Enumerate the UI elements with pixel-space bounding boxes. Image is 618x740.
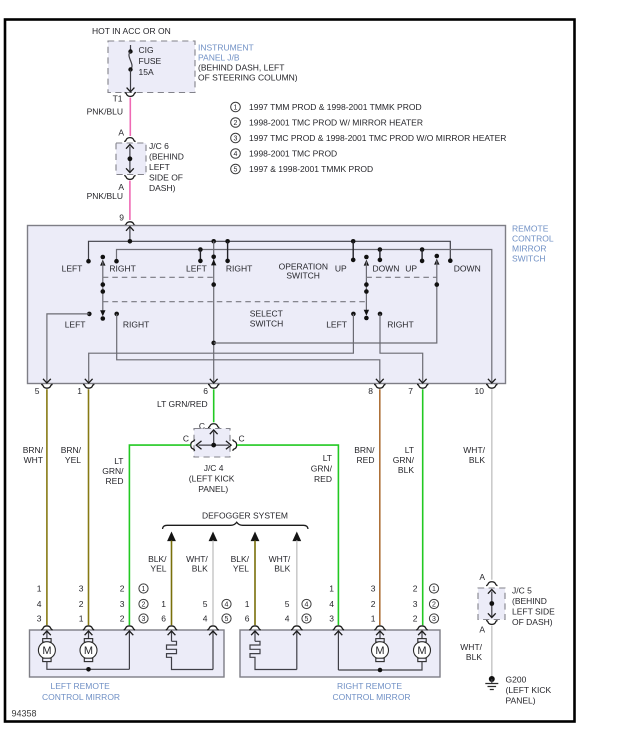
motor M right-2 (414, 639, 431, 662)
junction connector J/C 6 (116, 138, 184, 193)
svg-text:C: C (183, 434, 189, 444)
svg-text:LEFT: LEFT (149, 162, 170, 172)
svg-text:9: 9 (119, 213, 124, 223)
wire motors common right (338, 662, 422, 670)
svg-text:4: 4 (225, 602, 229, 609)
svg-text:3: 3 (142, 616, 146, 623)
node C right (233, 439, 237, 450)
svg-text:4: 4 (234, 151, 238, 158)
svg-text:1: 1 (142, 586, 146, 593)
svg-text:2: 2 (120, 584, 125, 594)
svg-text:DASH): DASH) (149, 183, 176, 193)
svg-text:T1: T1 (113, 94, 123, 104)
svg-text:CONTROL MIRROR: CONTROL MIRROR (333, 692, 411, 702)
svg-text:SIDE OF: SIDE OF (149, 173, 183, 183)
svg-text:4: 4 (329, 599, 334, 609)
wire BRN/WHT pin5 (46, 389, 48, 625)
svg-text:4: 4 (285, 614, 290, 624)
svg-text:M: M (84, 645, 93, 657)
contact RIGHT 1 (114, 259, 119, 264)
fuse CIG FUSE 15A (127, 45, 162, 92)
svg-text:5: 5 (225, 616, 229, 623)
svg-text:(LEFT KICK: (LEFT KICK (189, 474, 235, 484)
svg-text:INSTRUMENT: INSTRUMENT (198, 43, 254, 53)
svg-text:BLK: BLK (466, 652, 482, 662)
note 2 (231, 118, 423, 128)
svg-text:FUSE: FUSE (139, 56, 162, 66)
svg-text:3: 3 (37, 614, 42, 624)
mech link dashes select (103, 301, 367, 303)
wire PNK/BLU lower (129, 181, 131, 221)
svg-text:SWITCH: SWITCH (286, 271, 320, 281)
note 1 (231, 102, 422, 112)
svg-text:YEL: YEL (233, 564, 249, 574)
svg-text:DOWN: DOWN (373, 264, 400, 274)
svg-text:A: A (479, 625, 485, 635)
motor M right-1 (372, 639, 389, 662)
svg-text:2: 2 (432, 602, 436, 609)
pin 9 entry arrow (129, 227, 131, 241)
svg-text:1998-2001 TMC PROD: 1998-2001 TMC PROD (249, 149, 337, 159)
svg-text:CONTROL: CONTROL (512, 234, 554, 244)
svg-text:RIGHT: RIGHT (123, 320, 149, 330)
svg-text:M: M (375, 645, 384, 657)
svg-text:SWITCH: SWITCH (512, 254, 546, 264)
svg-text:BLK/: BLK/ (148, 554, 167, 564)
defogger brace (163, 522, 309, 529)
wire LT GRN/RED left branch (129, 445, 190, 625)
svg-text:BLK: BLK (469, 455, 485, 465)
wire BLK/YEL right (254, 541, 256, 626)
pin 7 (417, 384, 428, 388)
pin 1 (83, 384, 94, 388)
svg-text:7: 7 (408, 386, 413, 396)
svg-text:HOT IN ACC OR ON: HOT IN ACC OR ON (92, 26, 171, 36)
svg-text:BLK: BLK (398, 465, 414, 475)
svg-text:RED: RED (357, 455, 375, 465)
svg-text:YEL: YEL (65, 455, 81, 465)
svg-text:MIRROR: MIRROR (512, 244, 546, 254)
svg-text:2: 2 (120, 614, 125, 624)
svg-text:6: 6 (161, 614, 166, 624)
svg-text:LT GRN/RED: LT GRN/RED (157, 399, 208, 409)
node C left (191, 439, 195, 450)
pin 8 (374, 384, 385, 388)
svg-text:5: 5 (234, 167, 238, 174)
contact DOWN 4 (448, 258, 453, 263)
svg-text:3: 3 (413, 599, 418, 609)
svg-text:WHT/: WHT/ (269, 554, 291, 564)
svg-text:2: 2 (413, 614, 418, 624)
ground G200 (485, 675, 551, 706)
svg-text:(BEHIND DASH, LEFT: (BEHIND DASH, LEFT (198, 63, 284, 73)
svg-text:1: 1 (432, 586, 436, 593)
entry arcs right box (249, 626, 260, 630)
contact LEFT 2 stub (199, 250, 201, 261)
svg-text:(BEHIND: (BEHIND (149, 152, 184, 162)
pin 5 (41, 384, 52, 388)
contact LEFT 1 (86, 259, 91, 264)
svg-text:WHT/: WHT/ (186, 554, 208, 564)
wire select-left LEFT to pin 5 (47, 314, 89, 383)
svg-text:PNK/BLU: PNK/BLU (87, 191, 123, 201)
svg-text:2: 2 (413, 584, 418, 594)
svg-text:1997 & 1998-2001 TMMK PROD: 1997 & 1998-2001 TMMK PROD (249, 164, 373, 174)
wire BLK/YEL left (171, 541, 173, 626)
select left contacts (87, 312, 92, 317)
arrows inside J/C4 (213, 432, 215, 446)
svg-text:A: A (118, 128, 124, 138)
svg-text:G200: G200 (506, 675, 527, 685)
svg-text:DEFOGGER SYSTEM: DEFOGGER SYSTEM (202, 511, 288, 521)
svg-text:BRN/: BRN/ (23, 445, 44, 455)
motor M left-2 (80, 639, 97, 662)
contact UP 3 stub (352, 241, 354, 260)
svg-text:LT: LT (405, 445, 414, 455)
svg-text:RIGHT: RIGHT (387, 320, 413, 330)
contact UP 4 stub (421, 250, 423, 261)
svg-text:LT: LT (114, 456, 123, 466)
note 4 (231, 149, 337, 159)
svg-text:2: 2 (142, 602, 146, 609)
svg-text:J/C 6: J/C 6 (149, 141, 169, 151)
svg-text:M: M (417, 645, 426, 657)
svg-text:1: 1 (329, 584, 334, 594)
svg-text:4: 4 (203, 614, 208, 624)
svg-text:LEFT: LEFT (62, 264, 83, 274)
svg-text:RED: RED (106, 476, 124, 486)
wire LT GRN/RED right branch (237, 445, 339, 625)
svg-text:1: 1 (161, 599, 166, 609)
svg-text:OF STEERING COLUMN): OF STEERING COLUMN) (198, 73, 298, 83)
svg-text:3: 3 (234, 136, 238, 143)
wire WHT/BLK left (212, 541, 214, 626)
svg-text:PANEL J/B: PANEL J/B (198, 53, 240, 63)
svg-text:8: 8 (368, 386, 373, 396)
svg-text:6: 6 (203, 386, 208, 396)
svg-text:94358: 94358 (12, 709, 37, 719)
wiper w2 / pin 6 wire (210, 241, 218, 383)
svg-text:CONTROL MIRROR: CONTROL MIRROR (42, 692, 120, 702)
svg-text:LEFT REMOTE: LEFT REMOTE (51, 681, 111, 691)
svg-text:1: 1 (79, 614, 84, 624)
wire select-left RIGHT to pin 8 (117, 314, 380, 383)
defogger arrow 2 (209, 532, 218, 542)
svg-text:3: 3 (79, 584, 84, 594)
svg-text:WHT: WHT (24, 455, 43, 465)
svg-text:DOWN: DOWN (454, 264, 481, 274)
svg-text:4: 4 (305, 602, 309, 609)
svg-text:UP: UP (335, 264, 347, 274)
svg-text:RIGHT REMOTE: RIGHT REMOTE (337, 681, 402, 691)
svg-text:(LEFT KICK: (LEFT KICK (506, 685, 552, 695)
entry arrows left box (43, 631, 217, 670)
svg-text:BLK: BLK (192, 564, 208, 574)
svg-text:CIG: CIG (139, 45, 154, 55)
connector T1 (125, 93, 136, 97)
svg-text:2: 2 (79, 599, 84, 609)
wire WHT/BLK pin10 (491, 389, 493, 580)
entry arrows right box (251, 631, 426, 670)
svg-text:5: 5 (285, 599, 290, 609)
svg-text:LEFT: LEFT (186, 264, 207, 274)
contact RIGHT 2 stub (227, 241, 229, 261)
svg-text:6: 6 (245, 614, 250, 624)
svg-text:1: 1 (234, 105, 238, 112)
svg-text:RIGHT: RIGHT (109, 264, 135, 274)
heater element left (167, 641, 214, 669)
svg-text:PANEL): PANEL) (506, 696, 536, 706)
svg-text:M: M (42, 645, 51, 657)
contact DOWN 3 stub (379, 250, 381, 260)
svg-text:RIGHT: RIGHT (226, 264, 252, 274)
svg-text:LEFT: LEFT (326, 320, 347, 330)
defogger arrow 4 (292, 532, 301, 542)
wire motors common left (47, 662, 129, 670)
wire select-right LEFT to pin 1 (89, 314, 354, 383)
svg-text:J/C 5: J/C 5 (512, 586, 532, 596)
svg-text:PNK/BLU: PNK/BLU (87, 107, 123, 117)
svg-text:BLK: BLK (274, 564, 290, 574)
wiper w3 (364, 255, 369, 321)
svg-text:1998-2001 TMC PROD W/ MIRROR H: 1998-2001 TMC PROD W/ MIRROR HEATER (249, 118, 423, 128)
wire WHT/BLK right (296, 541, 298, 626)
svg-text:GRN/: GRN/ (311, 464, 333, 474)
svg-text:1: 1 (371, 614, 376, 624)
svg-text:A: A (479, 572, 485, 582)
wire BRN/YEL pin1 (88, 389, 90, 625)
svg-text:J/C 4: J/C 4 (204, 463, 224, 473)
note refs 4-5 left (222, 599, 231, 623)
note refs 1-3 left (139, 584, 148, 623)
mech link dashes operation left (103, 276, 214, 278)
svg-text:10: 10 (475, 386, 485, 396)
svg-text:GRN/: GRN/ (102, 466, 124, 476)
svg-text:3: 3 (432, 616, 436, 623)
svg-text:LEFT SIDE: LEFT SIDE (512, 607, 555, 617)
svg-text:4: 4 (37, 599, 42, 609)
entry arcs left box (41, 626, 52, 630)
svg-text:WHT/: WHT/ (463, 445, 485, 455)
svg-text:2: 2 (371, 599, 376, 609)
svg-text:3: 3 (120, 599, 125, 609)
defogger arrow 3 (251, 532, 260, 542)
svg-text:OF DASH): OF DASH) (512, 617, 553, 627)
wiper w1 (100, 255, 105, 321)
wire WHT/BLK to ground (491, 626, 493, 678)
wire BRN/RED pin8 (379, 389, 381, 625)
note 5 (231, 164, 373, 174)
note refs 4-5 right (302, 599, 311, 623)
svg-text:RED: RED (314, 474, 332, 484)
svg-text:WHT/: WHT/ (460, 642, 482, 652)
svg-text:GRN/: GRN/ (393, 455, 415, 465)
wire LT GRN/RED pin6 (213, 389, 215, 422)
junction connector J/C 5 (478, 582, 555, 627)
svg-text:5: 5 (203, 599, 208, 609)
svg-text:BRN/: BRN/ (61, 445, 82, 455)
svg-text:UP: UP (405, 264, 417, 274)
svg-text:PANEL): PANEL) (198, 484, 228, 494)
node bus1 (89, 241, 451, 261)
motor M left-1 (38, 639, 55, 662)
svg-text:1: 1 (77, 386, 82, 396)
svg-text:1: 1 (245, 599, 250, 609)
svg-text:3: 3 (371, 584, 376, 594)
svg-text:1997 TMM PROD & 1998-2001 TMMK: 1997 TMM PROD & 1998-2001 TMMK PROD (249, 102, 422, 112)
svg-text:YEL: YEL (150, 564, 166, 574)
wire select-right RIGHT to pin 7 (380, 314, 423, 383)
svg-text:1: 1 (37, 584, 42, 594)
svg-text:SWITCH: SWITCH (250, 319, 284, 329)
pin 6 (208, 384, 219, 388)
svg-text:SELECT: SELECT (250, 309, 283, 319)
note refs 1-3 right (429, 584, 438, 623)
svg-text:LT: LT (323, 453, 332, 463)
svg-text:REMOTE: REMOTE (512, 224, 549, 234)
node C top (208, 424, 219, 428)
svg-text:BLK/: BLK/ (231, 554, 250, 564)
svg-text:3: 3 (329, 614, 334, 624)
svg-text:5: 5 (35, 386, 40, 396)
svg-text:15A: 15A (139, 67, 154, 77)
svg-text:C: C (239, 434, 245, 444)
svg-text:(BEHIND: (BEHIND (512, 596, 547, 606)
node bus2 (117, 250, 492, 383)
pin 10 (486, 384, 497, 388)
mech link dashes operation right (366, 276, 436, 278)
note 3 (231, 133, 507, 143)
svg-text:1997 TMC PROD & 1998-2001 TMC: 1997 TMC PROD & 1998-2001 TMC PROD W/O M… (249, 133, 506, 143)
wiper w4 + link to pin6 node (214, 254, 440, 343)
svg-text:LEFT: LEFT (65, 320, 86, 330)
wire PNK/BLU upper (129, 98, 131, 137)
heater element right (250, 641, 297, 669)
instrument panel J/B box (108, 41, 195, 93)
svg-text:2: 2 (234, 120, 238, 127)
select right contacts (351, 312, 356, 317)
defogger arrow 1 (167, 532, 176, 542)
svg-text:5: 5 (305, 616, 309, 623)
wire LT GRN/BLK pin7 (422, 389, 424, 625)
svg-text:BRN/: BRN/ (354, 445, 375, 455)
